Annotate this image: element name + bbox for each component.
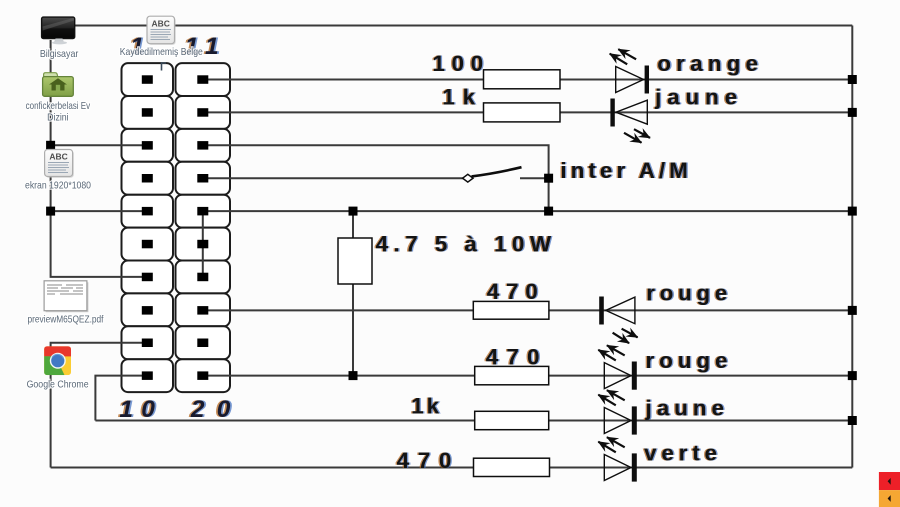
scrollbar button red <box>879 472 900 490</box>
label pin number 20 <box>188 396 232 423</box>
connector J1 pins 1-10 <box>142 75 153 380</box>
LED D3 rouge <box>599 297 637 344</box>
wire pin 5 to left rail <box>51 210 148 212</box>
resistor R6 470 <box>474 458 550 476</box>
wire pin 11 row to orange LED and right rail <box>203 79 853 81</box>
wire pin 13 row to switch branch corner <box>203 145 549 211</box>
svg-text:Dizini: Dizini <box>47 111 69 123</box>
svg-text:470: 470 <box>397 448 452 473</box>
resistor R3 470 <box>473 301 549 319</box>
svg-text:previewM65QEZ.pdf: previewM65QEZ.pdf <box>28 314 104 326</box>
wire link pins 15-16-17 <box>202 211 204 277</box>
wire pin 20 row rouge LED to right rail <box>203 375 853 377</box>
svg-text:confickerbelasi Ev: confickerbelasi Ev <box>26 100 91 112</box>
label value 470 verte <box>395 448 453 473</box>
connector J1 left column cells (pins 1-10) <box>122 63 174 96</box>
junction power resistor bottom <box>349 371 358 380</box>
label value 4.7 5 a 10W <box>374 232 553 257</box>
icon previewM65QEZ.pdf page <box>44 281 88 312</box>
svg-text:470: 470 <box>487 279 538 304</box>
label net orange <box>656 51 760 76</box>
LED D1 orange <box>610 49 649 93</box>
svg-text:Google Chrome: Google Chrome <box>27 379 89 391</box>
junction switch throw <box>544 174 553 183</box>
wire pin 3 to left rail <box>51 144 148 146</box>
label net inter A/M <box>559 158 689 183</box>
resistor R1 100 <box>484 70 561 89</box>
connector J1 right column cells (pins 11-20) <box>176 63 231 96</box>
icon ekran ABC document <box>45 150 74 178</box>
junction switch branch bottom <box>544 207 553 216</box>
wire pin 9 to left rail down to verte row <box>51 343 148 468</box>
svg-text:inter A/M: inter A/M <box>560 158 688 183</box>
junction left rail pin3 <box>46 141 55 150</box>
wire pin 14 row to switch pole <box>203 177 463 179</box>
label net jaune2 <box>643 396 725 421</box>
label net rouge2 <box>644 348 729 373</box>
wire right vertical rail <box>851 26 853 468</box>
svg-text:ABC: ABC <box>49 152 67 162</box>
icon Kaydedilmemis Belge ABC document <box>147 16 176 45</box>
wire top rail from computer icon to right rail <box>74 25 852 27</box>
switch S1 inter A/M <box>463 167 522 182</box>
label net jaune <box>653 85 739 110</box>
wire jaune row to right rail <box>95 420 852 422</box>
svg-text:ekran 1920*1080: ekran 1920*1080 <box>25 180 91 192</box>
junction right rail jaune2 <box>848 416 857 425</box>
label value 470 rouge1 <box>485 279 539 304</box>
wire left rail from computer icon down to pin 7 row <box>51 40 148 277</box>
wire switch throw stub <box>520 177 549 179</box>
label net rouge1 <box>645 281 729 306</box>
resistor R2 1k <box>484 103 561 122</box>
wire pin 10 jog down to jaune row <box>95 376 148 421</box>
caret mark above connector <box>162 63 167 71</box>
svg-text:470: 470 <box>486 345 540 370</box>
label pin number 1 <box>128 33 145 60</box>
label pin number 10 <box>118 396 157 423</box>
junction right rail jaune <box>848 108 857 117</box>
junction left rail pin5 <box>46 207 55 216</box>
LED D6 verte <box>598 437 637 481</box>
icon confickerbelasi Ev Dizini green home folder <box>43 73 74 97</box>
svg-text:jaune: jaune <box>654 85 737 110</box>
wire pin 15 row across to right rail <box>203 210 853 212</box>
scrollbar button orange <box>879 490 900 507</box>
resistor R4 470 <box>475 366 549 384</box>
junction right rail rouge2 <box>848 371 857 380</box>
resistor R7 4.7 5-10W power <box>338 238 372 284</box>
wire verte row bottom <box>51 467 853 469</box>
resistor R5 1k <box>475 411 549 429</box>
junction right rail rouge1 <box>848 306 857 315</box>
svg-text:verte: verte <box>644 441 717 466</box>
label value 470 rouge2 <box>484 345 541 370</box>
svg-text:jaune: jaune <box>645 396 725 421</box>
label value 1k <box>441 85 477 110</box>
svg-text:Bilgisayar: Bilgisayar <box>40 48 79 60</box>
wire power resistor branch <box>352 211 354 376</box>
wire pin 18 row rouge LED to right rail <box>203 309 853 311</box>
connector J1 pins 11-20 <box>197 75 208 380</box>
svg-text:100: 100 <box>432 51 483 76</box>
svg-text:ABC: ABC <box>151 18 169 28</box>
icon Google Chrome <box>44 346 71 375</box>
wire pin 12 row to jaune LED and right rail <box>203 111 853 113</box>
LED D2 jaune <box>610 99 650 143</box>
label value 100 <box>431 51 485 76</box>
label pin number 11 <box>183 33 221 60</box>
LED D5 jaune <box>598 390 637 434</box>
label value 1k jaune2 <box>410 394 441 419</box>
LED D4 rouge <box>598 345 637 389</box>
junction right rail row5 <box>848 207 857 216</box>
svg-text:Kaydedilmemiş Belge: Kaydedilmemiş Belge <box>120 46 203 58</box>
icon Bilgisayar computer monitor <box>42 17 75 44</box>
junction right rail orange <box>848 75 857 84</box>
label net verte <box>643 441 719 466</box>
junction power resistor top <box>349 207 358 216</box>
